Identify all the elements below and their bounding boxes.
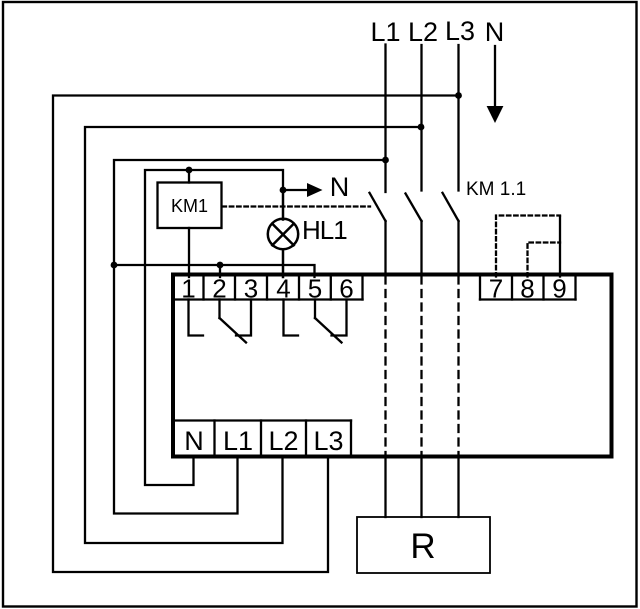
N arrow near KM1 bbox=[283, 183, 323, 197]
svg-text:L1: L1 bbox=[370, 17, 400, 47]
wire branch to terminal 2 bbox=[219, 265, 221, 277]
svg-text:R: R bbox=[410, 527, 435, 566]
bottom terminal strip N L1 L2 L3 bbox=[173, 421, 351, 455]
contactor coil KM1 bbox=[158, 183, 222, 229]
dashed mechanical linkage KM1 bbox=[223, 205, 371, 207]
contact KM1.1 pole 1 (L1) bbox=[370, 193, 386, 273]
load R bbox=[357, 517, 490, 573]
wire L1 vertical bbox=[384, 45, 386, 193]
node L1/loop3 bbox=[382, 157, 389, 164]
dashed relay output terminal 7 bbox=[496, 216, 560, 277]
svg-text:L1: L1 bbox=[223, 426, 253, 456]
internal contact: terminal 5 blade bbox=[315, 300, 342, 343]
wire L3 vertical bbox=[457, 45, 459, 191]
dashed internal wire L2 bbox=[420, 277, 422, 455]
contact KM1.1 pole 2 (L2) bbox=[406, 194, 422, 274]
wire feed to terminals 2 and 5 bbox=[114, 265, 315, 277]
wire KM1 top lead bbox=[188, 170, 190, 183]
wire loop 4 (N terminal to KM1/HL1) bbox=[145, 170, 283, 485]
node KM1 top junction bbox=[186, 167, 193, 174]
dashed internal wire L1 bbox=[384, 277, 386, 455]
node terminal2 branch junction bbox=[217, 262, 224, 269]
dashed relay output terminal 8 bbox=[528, 243, 561, 277]
internal contact: terminal 2 blade bbox=[220, 300, 247, 343]
svg-text:L2: L2 bbox=[268, 426, 298, 456]
svg-text:8: 8 bbox=[520, 274, 534, 304]
wire KM1 bottom lead to terminal 1 bbox=[188, 228, 190, 277]
wire loop 3 (L1 to bottom terminal L1) bbox=[114, 160, 386, 514]
wire relay common to terminal 9 bbox=[559, 217, 561, 277]
wire loop 1 (L3 to bottom terminal L3) bbox=[53, 96, 459, 573]
device box bbox=[173, 275, 612, 457]
node loop3 feed junction bbox=[111, 262, 118, 269]
wire to load R phase L3 bbox=[457, 459, 459, 518]
node HL1/N junction bbox=[280, 187, 287, 194]
internal contact: terminal 4 fixed bbox=[284, 300, 299, 336]
N feed arrow bbox=[487, 46, 504, 123]
svg-text:HL1: HL1 bbox=[302, 215, 347, 245]
wire to load R phase L2 bbox=[420, 459, 422, 518]
svg-text:N: N bbox=[485, 17, 505, 47]
terminal strip 1-6 bbox=[173, 277, 363, 300]
svg-text:9: 9 bbox=[552, 274, 566, 304]
svg-text:KM 1.1: KM 1.1 bbox=[466, 179, 526, 200]
svg-text:KM1: KM1 bbox=[171, 196, 208, 216]
dashed internal wire L3 bbox=[457, 277, 459, 455]
svg-text:N: N bbox=[184, 426, 204, 456]
svg-text:7: 7 bbox=[489, 274, 503, 304]
wire L2 vertical bbox=[420, 45, 422, 191]
lamp HL1 bbox=[268, 190, 298, 277]
svg-text:N: N bbox=[330, 172, 350, 202]
wire loop 2 (L2 to bottom terminal L2) bbox=[85, 127, 421, 543]
svg-text:L2: L2 bbox=[408, 17, 438, 47]
internal contact: terminal 3 fixed bbox=[236, 300, 251, 336]
wire to load R phase L1 bbox=[384, 459, 386, 518]
node L3/loop1 bbox=[455, 92, 462, 99]
svg-text:L3: L3 bbox=[313, 426, 343, 456]
terminal strip 7-9 bbox=[480, 277, 576, 300]
node L2/loop2 bbox=[418, 124, 425, 131]
internal contact: terminal 6 fixed bbox=[332, 300, 347, 336]
contact KM1.1 pole 3 (L3) bbox=[443, 193, 459, 273]
svg-text:L3: L3 bbox=[445, 16, 475, 46]
internal contact: terminal 1 fixed bbox=[189, 300, 204, 336]
